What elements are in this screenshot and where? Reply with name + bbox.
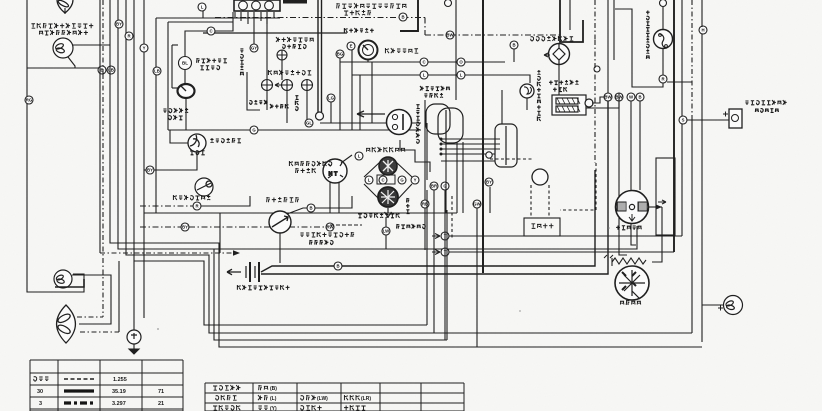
right mid box xyxy=(656,158,675,235)
wire lamp to bus xyxy=(73,44,110,46)
wire T1 right xyxy=(449,235,682,237)
connector R bus xyxy=(125,32,133,40)
wire xyxy=(172,87,178,89)
license plus xyxy=(723,112,728,117)
wire meter pin down xyxy=(247,12,249,24)
table text LW xyxy=(301,395,316,400)
wire x427 upper xyxy=(426,123,428,180)
ignition coil box xyxy=(552,95,593,115)
label generator xyxy=(616,225,642,229)
thick bar xyxy=(283,0,307,4)
wire bus x110 loop bottom xyxy=(110,0,702,347)
wire xyxy=(607,273,609,274)
wire R to x692 xyxy=(667,81,692,83)
table text LR xyxy=(344,395,359,400)
horn xyxy=(188,134,206,152)
wire x352 xyxy=(351,50,353,130)
label 12V-25W horn xyxy=(210,138,241,143)
connector T2 xyxy=(441,248,449,256)
arrow in box xyxy=(658,200,666,204)
wire x702 main xyxy=(701,34,703,342)
wire dashdot y206 xyxy=(140,205,193,207)
wire gauge table xyxy=(30,360,183,411)
table text blue L xyxy=(258,395,268,400)
wire x119 stub down xyxy=(118,261,120,332)
label fuel meter line1 xyxy=(163,108,188,113)
wire x220 xyxy=(219,213,221,253)
small marks starter xyxy=(604,255,613,258)
stop switch xyxy=(195,178,213,196)
wire lamp down xyxy=(68,57,75,68)
tail plus xyxy=(718,306,723,311)
node open circle xyxy=(316,112,324,120)
connector BY row xyxy=(485,178,493,186)
wire y75 xyxy=(352,75,530,83)
wire drop GY xyxy=(253,18,255,44)
label engine xyxy=(531,224,553,229)
label fuel meter line2 xyxy=(169,115,183,120)
label dimmer switch xyxy=(266,197,298,202)
connector BW2 row right xyxy=(615,93,624,101)
wire pilot down2 xyxy=(286,90,288,123)
front turn lamp left xyxy=(54,270,72,288)
wire x456 top xyxy=(455,0,457,100)
connector RW xyxy=(326,223,334,231)
label turn signal switch line2 xyxy=(424,93,443,98)
turn signal switch tall loop xyxy=(495,124,517,167)
table text sono ta xyxy=(216,395,237,400)
label wiper small vertical xyxy=(406,198,410,213)
wire C to meter box xyxy=(215,12,233,31)
wire dimmer down xyxy=(279,233,281,263)
wire x457 xyxy=(456,142,458,213)
table text earth circuit xyxy=(213,385,240,390)
wire x360 xyxy=(359,75,361,130)
wire bus x103 dashdot top xyxy=(102,0,104,74)
connector E tach xyxy=(347,42,355,50)
wire heavy x318 xyxy=(317,0,319,112)
wire backlamp down xyxy=(662,49,664,75)
wire x463 xyxy=(462,142,464,213)
wire x608 upper xyxy=(607,0,609,93)
pilot lamp xyxy=(261,80,273,91)
wire horn left xyxy=(170,130,188,143)
connector B left xyxy=(98,66,106,74)
wire meter pin down xyxy=(260,12,262,21)
wire stair steps xyxy=(400,140,430,172)
wire BL loop left xyxy=(171,45,173,88)
connector top x448 xyxy=(445,0,452,7)
connector on y17 xyxy=(399,13,407,21)
connector GW row xyxy=(473,200,482,208)
wire x640 down xyxy=(639,101,641,190)
wire meter pin down xyxy=(253,12,255,18)
wire dashdot y253 arrow line xyxy=(100,252,234,254)
connector B contact xyxy=(510,41,518,49)
table text high tension xyxy=(34,377,49,382)
dimmer switch xyxy=(269,211,291,233)
arrow battery xyxy=(227,269,241,275)
scan speck xyxy=(519,310,521,312)
wire dimmer to B xyxy=(287,208,307,214)
wire x340 down xyxy=(339,58,341,130)
label back lamp switch vertical xyxy=(646,10,650,58)
starter coil zigzag xyxy=(612,258,646,264)
connector BW row right xyxy=(604,93,613,101)
wire coil to BW2 up xyxy=(586,93,619,108)
table text row3 a xyxy=(213,405,240,410)
wire y22 feed xyxy=(168,21,233,23)
wire bus x156 xyxy=(155,18,157,213)
wire y130 xyxy=(168,129,421,131)
wire x490 xyxy=(489,187,491,213)
connector C top xyxy=(207,27,215,35)
label charge pilot vertical xyxy=(240,49,244,75)
wire x619 down to generator xyxy=(619,101,627,255)
wire x103 dashdot long xyxy=(102,74,104,317)
wire almond dashdot y332 xyxy=(80,331,119,333)
arrow contact xyxy=(544,53,550,57)
label battery 12V-26HA xyxy=(237,285,289,290)
wire y33 xyxy=(203,32,347,34)
connector top right xyxy=(660,0,667,7)
connector BG tach xyxy=(336,50,344,58)
wire B down xyxy=(513,49,515,62)
wire tach stub xyxy=(367,60,369,62)
wire stop right xyxy=(201,196,250,206)
wire pilot down1 xyxy=(266,90,268,110)
table text black B xyxy=(258,386,268,391)
wire x682 xyxy=(681,0,683,236)
label tachometer xyxy=(385,48,418,53)
wire to RG branch xyxy=(27,67,100,69)
battery cells xyxy=(246,262,259,282)
wire x434 long xyxy=(433,190,435,333)
connector C y62 xyxy=(420,58,428,66)
label 12V-3W pilot xyxy=(309,240,333,245)
wire xyxy=(447,0,449,6)
wire wiper arrow to conn xyxy=(385,218,387,227)
meter connector box xyxy=(234,0,280,11)
wiper diamond xyxy=(364,162,412,200)
label lighting switch line2 xyxy=(295,168,315,173)
turn signal switch loops xyxy=(426,104,463,143)
label turn signal pilot xyxy=(300,232,354,237)
arrowhead xyxy=(233,250,240,256)
wire gauge down xyxy=(185,98,187,130)
wire meter lamp down xyxy=(281,60,283,80)
wire x372 xyxy=(371,62,373,123)
contact breaker xyxy=(549,44,570,65)
table text row3 b xyxy=(258,406,267,409)
wire dashed engine right xyxy=(560,163,596,210)
wire x427 riser xyxy=(426,190,428,325)
label 12V-3W pilot2 xyxy=(270,104,288,108)
wire bundle y144 xyxy=(441,143,500,145)
oil level unit xyxy=(520,84,534,98)
front parking lamp xyxy=(53,38,73,58)
generator xyxy=(616,191,649,224)
pilot lamp xyxy=(281,80,293,91)
connector RB row xyxy=(421,200,429,208)
wire heavy x321 xyxy=(321,0,323,112)
label meter lamp xyxy=(276,37,314,42)
wire C to BL unit xyxy=(185,31,207,56)
connector GY xyxy=(250,44,258,52)
connector LW bottom xyxy=(382,227,390,235)
fuel gauge xyxy=(178,84,195,98)
connector L2 wiper xyxy=(365,176,373,184)
wire y18 feed xyxy=(156,17,280,19)
wire coil to BW xyxy=(592,97,604,103)
connector BY mid xyxy=(146,166,154,174)
wire bus x144 xyxy=(143,0,145,318)
label 12V-20W xyxy=(396,224,425,229)
meter pin 2 xyxy=(252,1,261,10)
connector LG xyxy=(327,94,335,102)
meter lamp bulb xyxy=(277,50,287,60)
wire backlamp up xyxy=(662,7,664,29)
wire dashdot y227 a xyxy=(140,226,181,228)
table dash row1 xyxy=(64,378,94,380)
connector G row xyxy=(441,182,449,190)
wire x425 xyxy=(424,208,426,250)
rear turn lamp left xyxy=(57,305,76,343)
label license lamp 12V-8W xyxy=(755,109,779,113)
lamp bracket xyxy=(55,279,84,287)
connector L wiper xyxy=(355,152,363,160)
arrow wiper down xyxy=(385,208,392,217)
label horn xyxy=(190,151,205,155)
connector y62 b xyxy=(457,58,465,66)
label ignition starter switch line2 xyxy=(344,10,371,15)
wire lighting down2 xyxy=(338,182,340,213)
wire x631 down xyxy=(631,101,636,245)
connector B battery line xyxy=(334,262,342,270)
connector G y130 xyxy=(250,126,258,134)
wire left frame to front turn lamp xyxy=(27,0,84,292)
pilot lamp xyxy=(301,80,313,91)
label turn signal unit line1 xyxy=(196,58,227,63)
scan speck xyxy=(608,227,610,229)
ground symbol xyxy=(129,344,139,354)
connector LB bus xyxy=(153,67,161,75)
wire backlamp elbow xyxy=(615,9,663,87)
wire BY to horn xyxy=(154,160,197,170)
wire y213 long xyxy=(144,212,457,214)
turn signal lamp front top xyxy=(57,0,73,13)
connector R backlamp xyxy=(659,75,667,83)
wire bus x134 xyxy=(133,0,135,330)
wire dashdot x595 xyxy=(594,40,596,163)
scan noise filter xyxy=(0,0,1,1)
wire y62 xyxy=(340,61,505,63)
wiper motor lower xyxy=(378,187,398,207)
wire thick step top right xyxy=(560,0,583,42)
wire dashed y159 xyxy=(490,158,533,160)
ground lamp xyxy=(127,330,141,344)
label oil level unit vertical xyxy=(537,70,541,121)
starter xyxy=(615,266,649,300)
label 12V-3W meter lamp xyxy=(283,44,307,48)
connector LB left xyxy=(107,66,115,74)
table solid row2 xyxy=(64,389,94,392)
wire heavy x483 xyxy=(482,0,484,273)
connector RG xyxy=(25,96,33,104)
wire meter pin down xyxy=(266,12,268,24)
connector T1 xyxy=(441,232,449,240)
wire x614 xyxy=(613,0,615,60)
connector W row right xyxy=(627,93,635,101)
label beam pilot xyxy=(268,70,311,75)
wiper motor upper xyxy=(379,157,397,175)
label turn signal unit line2 xyxy=(200,66,219,70)
tachometer xyxy=(359,41,378,60)
wire dashdot x692 top xyxy=(691,0,693,120)
connector Y bus xyxy=(140,44,148,52)
label ignition coil line1 xyxy=(549,80,578,85)
wire dash y225 xyxy=(330,224,362,226)
wire x446 xyxy=(445,140,447,213)
license lamp xyxy=(729,109,742,128)
wiper rect xyxy=(377,175,395,184)
connector L top xyxy=(198,3,206,11)
wire meter pin down xyxy=(234,12,236,18)
label lighting switch line1 xyxy=(289,161,331,166)
wire heavy x418 xyxy=(400,0,418,31)
wire x477 long xyxy=(476,208,478,347)
connector S license xyxy=(679,116,687,124)
connector H right xyxy=(699,26,707,34)
engine box xyxy=(524,218,560,236)
label ignition starter switch line1 xyxy=(336,3,406,8)
wire dashdot y227 b xyxy=(189,226,326,228)
wire dashed plug left xyxy=(530,185,532,218)
back lamp switch xyxy=(654,30,673,49)
wire lighting down1 xyxy=(329,182,331,213)
table text row3 c xyxy=(301,405,322,410)
connector G wiper xyxy=(398,176,406,184)
label turn signal parking lamp line1 xyxy=(31,23,93,28)
wire bundle y154 xyxy=(441,153,495,155)
wire heavy x674 xyxy=(673,0,675,252)
wire horn down xyxy=(196,152,198,160)
wire meter pin down xyxy=(240,12,242,21)
wire y261 loop bottom xyxy=(134,261,427,325)
label license lamp line1 xyxy=(745,100,786,105)
label 12V 23/8W line2 xyxy=(39,30,88,35)
wire dashed x452 xyxy=(451,196,453,240)
wire bundle y161 xyxy=(441,160,495,162)
junction dots xyxy=(440,138,443,156)
wire dashdot y17 xyxy=(215,17,425,19)
wire x445 long xyxy=(444,190,446,340)
wire tail lamp xyxy=(702,304,724,306)
wire contact down xyxy=(558,65,560,95)
connector BY y227 xyxy=(181,223,189,231)
connector Y wiper xyxy=(411,176,419,184)
turn signal unit BL xyxy=(179,57,192,70)
wire x692 lower xyxy=(691,120,693,333)
wire meter pin down xyxy=(273,12,275,18)
wire xyxy=(64,8,66,14)
label 12V-3W pilot1 xyxy=(250,100,268,104)
connector small 489 xyxy=(486,152,492,158)
wire bundle y139 xyxy=(441,138,500,140)
spark plug circle xyxy=(532,169,548,185)
scan speck xyxy=(157,328,159,330)
connector R stop xyxy=(193,202,201,210)
lighting switch xyxy=(323,159,347,183)
wire LG down xyxy=(330,102,332,123)
connector small x597 xyxy=(594,66,600,72)
wire x447 xyxy=(446,210,448,340)
wire LW down xyxy=(385,235,387,249)
wire xyxy=(172,44,178,46)
label ignition coil line2 xyxy=(553,87,567,92)
wire x570 xyxy=(569,0,571,30)
tail lamp right xyxy=(724,296,743,315)
arrow t1 xyxy=(432,234,440,239)
label contact breaker xyxy=(531,36,574,41)
color code table xyxy=(205,383,464,411)
label turn signal switch line1 xyxy=(420,86,450,91)
label speedometer vertical xyxy=(416,105,420,144)
wire x425 upper xyxy=(424,100,426,200)
connector B row right xyxy=(636,93,644,101)
wire L into bus xyxy=(202,11,204,18)
wire BL to gauge xyxy=(184,70,186,84)
wire dashdot x595 top xyxy=(594,0,596,40)
speedometer xyxy=(387,110,412,135)
connector BR row xyxy=(430,182,438,190)
wire pilot down3 xyxy=(306,90,308,123)
wire bus x118 to generator xyxy=(118,0,637,249)
wire into tall loop xyxy=(501,90,503,124)
connector BW xyxy=(446,31,455,39)
label 12V-3W top xyxy=(344,28,373,33)
arrowhead gen xyxy=(656,205,662,210)
connector C wiper xyxy=(379,176,387,184)
wire bundle y149 xyxy=(441,148,500,150)
wire pilot box left xyxy=(247,72,260,110)
wire battery upper to x595 up xyxy=(261,170,595,272)
wire dashdot jog xyxy=(424,18,426,36)
wire bus x100 xyxy=(99,0,101,253)
wire x214 loop bottom xyxy=(214,249,447,340)
label 2-speed xyxy=(358,213,400,218)
connector B dimmer xyxy=(307,204,315,212)
table text row3 d xyxy=(344,405,366,410)
meter pin 3 xyxy=(265,1,274,10)
connector L y75 xyxy=(420,71,428,79)
wire bus x126 loop bottom xyxy=(126,0,692,333)
connector y75 b xyxy=(457,71,465,79)
wire drop pilot xyxy=(266,18,268,79)
label starter xyxy=(620,301,641,306)
connector GL y123 xyxy=(305,119,313,127)
wire B right xyxy=(315,196,352,208)
table dash row3 xyxy=(64,401,94,404)
wire dashdot y35 xyxy=(425,34,560,36)
wire to starter coil xyxy=(652,207,662,262)
wire dashed plug right xyxy=(548,185,550,218)
connector BY bus xyxy=(115,20,123,28)
label wiper switch xyxy=(366,147,405,152)
wire y123 xyxy=(320,122,421,124)
wire T2 right xyxy=(449,251,674,253)
arrow t2 xyxy=(432,250,440,255)
